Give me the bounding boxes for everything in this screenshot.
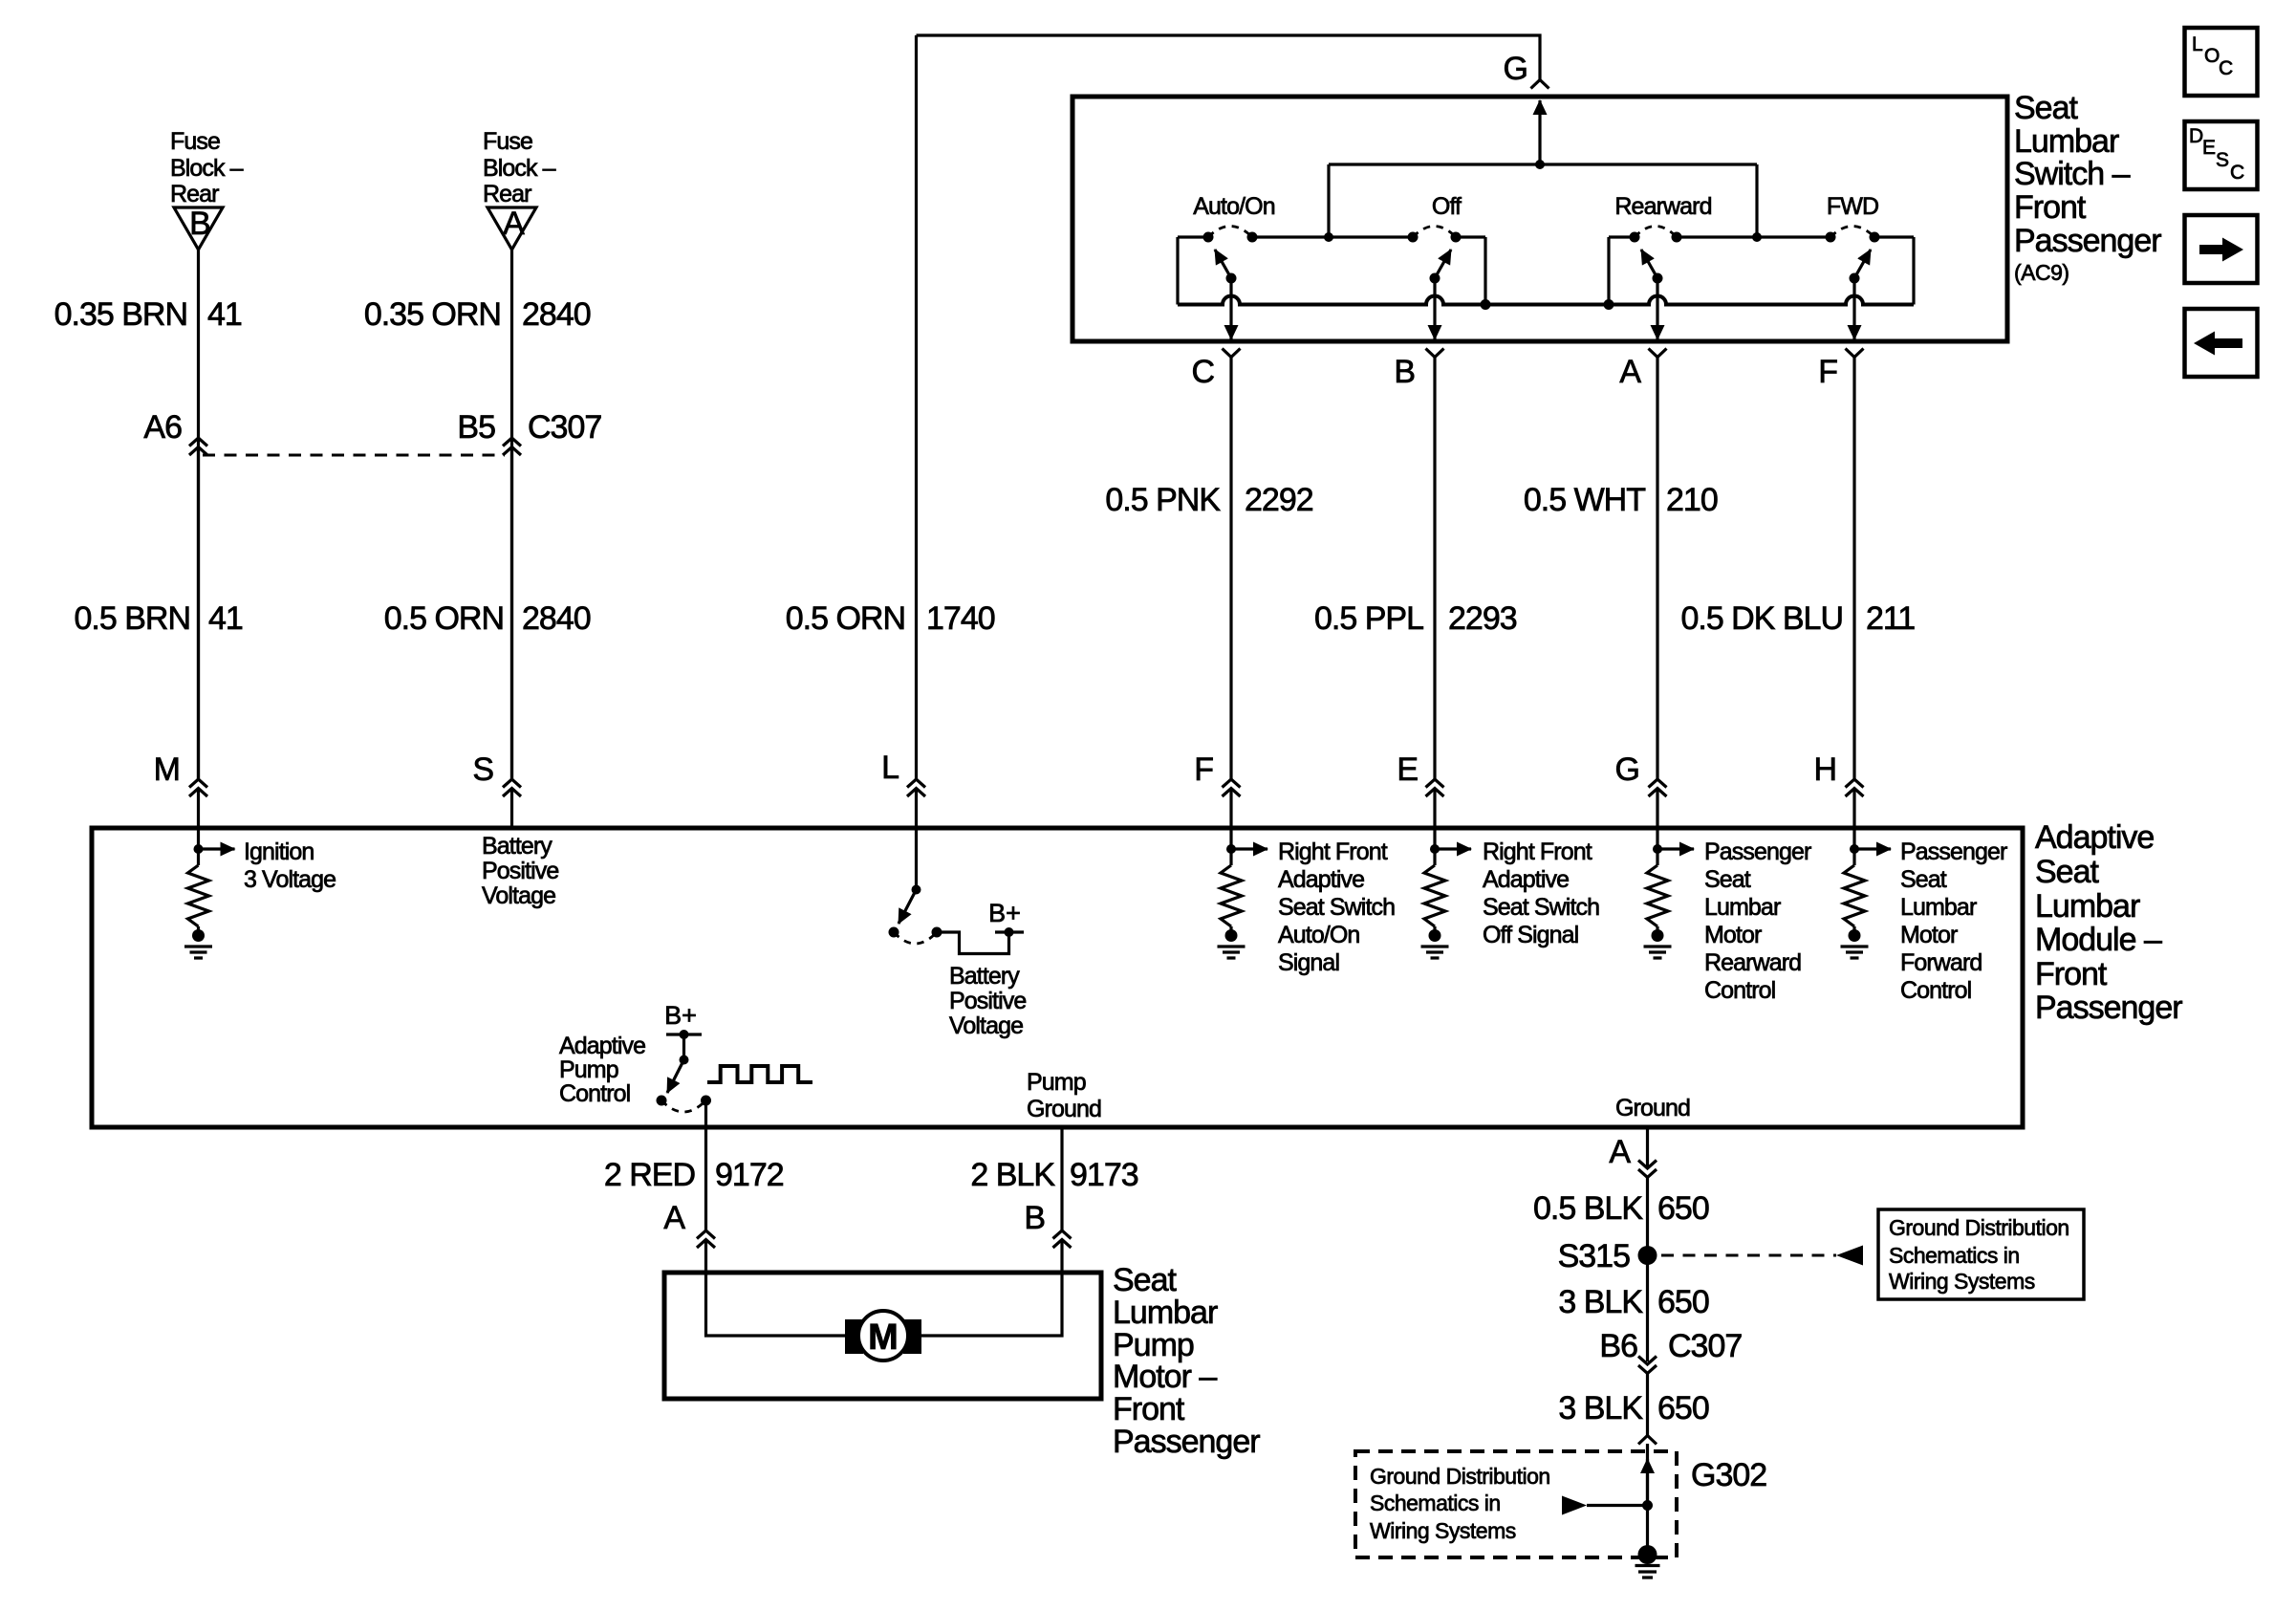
switch group2 dashed throw arcs: [1635, 227, 1874, 238]
G302 dashed box: [1355, 1451, 1677, 1557]
connector chevrons motor pin A: [697, 1230, 715, 1248]
wire B5 to module pin S: [510, 447, 513, 780]
svg-text:M: M: [868, 1317, 899, 1358]
svg-text:B+: B+: [664, 1001, 697, 1030]
wire L vertical: [915, 35, 918, 779]
label Pump Ground: [1027, 1069, 1101, 1122]
motor M1 body: [858, 1311, 908, 1361]
DESC reference box: [2185, 121, 2258, 189]
labels B5 C307: [457, 409, 601, 446]
wire C to module pin F: [1229, 358, 1232, 780]
ground distribution reference box: [1878, 1209, 2084, 1299]
module pin M ignition input: [194, 844, 204, 854]
label 0.5 WHT 210: [1524, 482, 1718, 518]
svg-text:Front: Front: [2014, 189, 2087, 226]
svg-text:Passenger: Passenger: [1113, 1424, 1260, 1460]
label 0.35 BRN 41: [54, 296, 242, 333]
connector chevron at pin G: [1531, 80, 1549, 89]
svg-text:A: A: [1609, 1134, 1631, 1170]
svg-text:L: L: [881, 750, 899, 786]
label 0.5 DK BLU 211: [1680, 600, 1915, 637]
svg-text:Auto/On: Auto/On: [1278, 922, 1359, 948]
connector chevron pin B: [1426, 349, 1444, 358]
svg-text:3 Voltage: 3 Voltage: [244, 866, 336, 893]
svg-text:Motor –: Motor –: [1113, 1359, 1217, 1395]
svg-text:FWD: FWD: [1827, 193, 1878, 220]
svg-text:Motor: Motor: [1900, 922, 1958, 948]
connector chevron G302: [1638, 1436, 1657, 1445]
svg-text:Ground Distribution: Ground Distribution: [1370, 1464, 1550, 1489]
svg-text:Battery: Battery: [949, 963, 1020, 990]
svg-text:C: C: [1191, 354, 1214, 390]
svg-text:41: 41: [207, 296, 242, 333]
switch FWD arm: [1850, 273, 1860, 284]
fuse block A label: [483, 128, 556, 207]
svg-text:Ground Distribution: Ground Distribution: [1889, 1215, 2069, 1240]
svg-text:G: G: [1615, 751, 1639, 788]
svg-text:A: A: [663, 1200, 685, 1236]
label 3 BLK 650: [1558, 1284, 1708, 1320]
svg-text:Wiring Systems: Wiring Systems: [1370, 1518, 1516, 1543]
svg-text:2 BLK: 2 BLK: [970, 1157, 1055, 1193]
label Ground Distribution Schematics in Wiring Systems G302: [1370, 1464, 1550, 1543]
svg-text:C307: C307: [1668, 1328, 1742, 1364]
svg-text:Rearward: Rearward: [1614, 193, 1711, 220]
connector chevrons ground pin A: [1638, 1161, 1657, 1178]
svg-text:C307: C307: [528, 409, 601, 446]
svg-text:D: D: [2189, 125, 2203, 147]
svg-text:Auto/On: Auto/On: [1193, 193, 1274, 220]
wire module ground pin A: [1646, 1127, 1649, 1168]
svg-text:Motor: Motor: [1704, 922, 1762, 948]
svg-text:B: B: [1394, 354, 1415, 390]
label 3 BLK 650 lower: [1558, 1390, 1708, 1426]
wire fuse B to connector A6: [197, 250, 200, 779]
svg-text:F: F: [1194, 751, 1213, 788]
switch Off arm: [1430, 273, 1440, 284]
svg-text:Lumbar: Lumbar: [2035, 888, 2140, 925]
switch Auto/On arm: [1226, 273, 1237, 284]
svg-text:Adaptive: Adaptive: [2035, 819, 2154, 856]
label 0.5 BLK 650: [1533, 1190, 1709, 1227]
svg-text:650: 650: [1657, 1190, 1709, 1227]
svg-text:Forward: Forward: [1900, 949, 1982, 976]
svg-text:2293: 2293: [1448, 600, 1517, 637]
svg-text:Ignition: Ignition: [244, 838, 314, 865]
svg-text:Front: Front: [1113, 1391, 1185, 1427]
fuse block A symbol: [487, 206, 536, 250]
label Passenger Seat Lumbar Motor Rearward Control: [1704, 838, 1811, 1004]
svg-text:B+: B+: [988, 899, 1021, 927]
wire B to module pin E: [1433, 358, 1436, 780]
svg-text:3 BLK: 3 BLK: [1558, 1284, 1643, 1320]
label Battery Positive Voltage pin S: [482, 833, 558, 909]
svg-text:O: O: [2204, 45, 2220, 67]
connector chevron pin F: [1846, 349, 1864, 358]
switch group1 dashed throw arcs: [1208, 227, 1456, 238]
label 0.5 ORN 2840: [384, 600, 591, 637]
wire A6 to module pin M: [197, 447, 200, 780]
svg-text:Pump: Pump: [1027, 1069, 1086, 1096]
svg-text:Voltage: Voltage: [949, 1012, 1023, 1039]
svg-text:Schematics in: Schematics in: [1889, 1243, 2020, 1268]
svg-text:Off: Off: [1432, 193, 1462, 220]
fuse block B label: [170, 128, 244, 207]
label Battery Positive Voltage internal: [949, 963, 1026, 1039]
svg-text:Positive: Positive: [949, 988, 1026, 1014]
svg-text:Fuse: Fuse: [170, 128, 220, 155]
svg-text:0.5 PPL: 0.5 PPL: [1314, 600, 1423, 637]
switch group1 contact dots: [1203, 232, 1214, 243]
label 0.5 ORN 1740: [786, 600, 995, 637]
svg-text:650: 650: [1657, 1284, 1709, 1320]
connector chevrons at pin L: [907, 779, 925, 796]
switch group2 contact dots: [1630, 232, 1640, 243]
svg-text:9172: 9172: [715, 1157, 784, 1193]
svg-text:0.5 ORN: 0.5 ORN: [786, 600, 905, 637]
svg-text:Front: Front: [2035, 956, 2108, 992]
svg-text:Rear: Rear: [483, 181, 531, 207]
svg-text:S315: S315: [1558, 1238, 1630, 1274]
connector C307 pin A6 chevrons: [189, 438, 207, 455]
label 0.5 PNK 2292: [1105, 482, 1312, 518]
wire top horizontal to switch pin G: [917, 35, 1541, 80]
switch output arrow A: [1656, 278, 1658, 339]
motor M1 brushes: [845, 1319, 863, 1354]
svg-text:0.35 ORN: 0.35 ORN: [364, 296, 501, 333]
node G bus junction: [1535, 160, 1545, 169]
svg-text:650: 650: [1657, 1390, 1709, 1426]
svg-text:A: A: [1619, 354, 1641, 390]
connector chevrons module pin H: [1846, 779, 1864, 796]
svg-text:Passenger: Passenger: [1704, 838, 1811, 865]
svg-text:E: E: [2202, 137, 2216, 159]
wires inside motor box: [706, 1273, 1063, 1336]
svg-text:Seat: Seat: [1704, 866, 1751, 893]
svg-text:2840: 2840: [522, 600, 591, 637]
svg-text:M: M: [154, 751, 180, 788]
connector chevron pin C: [1223, 349, 1241, 358]
svg-text:Seat: Seat: [2014, 90, 2078, 126]
svg-text:Control: Control: [1704, 977, 1775, 1004]
G302 internal reference arrow: [1562, 1496, 1587, 1515]
label Right Front Adaptive Seat Switch Auto/On Signal: [1278, 838, 1395, 976]
wire pump control to motor pin A: [704, 1100, 707, 1230]
switch output arrow F: [1852, 278, 1855, 339]
svg-text:C: C: [2230, 162, 2244, 184]
node lower bus junction right: [1604, 299, 1614, 310]
svg-text:Voltage: Voltage: [482, 882, 555, 909]
svg-text:Seat Switch: Seat Switch: [1483, 894, 1599, 921]
wire pump ground to motor pin B: [1060, 1127, 1063, 1230]
svg-text:Rearward: Rearward: [1704, 949, 1801, 976]
svg-text:Switch –: Switch –: [2014, 156, 2131, 192]
node bus drop junction: [1324, 232, 1333, 242]
svg-text:0.5 WHT: 0.5 WHT: [1524, 482, 1645, 518]
svg-text:Adaptive: Adaptive: [1483, 866, 1569, 893]
svg-text:Ground: Ground: [1027, 1096, 1101, 1122]
svg-text:B5: B5: [457, 409, 495, 446]
module pin G resistor: [1653, 844, 1662, 854]
svg-text:3 BLK: 3 BLK: [1558, 1390, 1643, 1426]
dashed reference line from S315: [1661, 1254, 1836, 1257]
connector chevrons module pin F: [1223, 779, 1241, 796]
module pin F resistor: [1226, 844, 1236, 854]
label Ground Distribution Schematics in Wiring Systems: [1889, 1215, 2069, 1294]
svg-text:Battery: Battery: [482, 833, 552, 860]
module pin E resistor: [1430, 844, 1440, 854]
svg-text:L: L: [2192, 33, 2203, 55]
wire bus left drop: [1327, 164, 1330, 237]
svg-text:G: G: [1504, 51, 1527, 87]
svg-text:Seat Switch: Seat Switch: [1278, 894, 1395, 921]
wire into module pin S: [510, 789, 513, 829]
svg-text:S: S: [2216, 149, 2229, 171]
svg-text:Control: Control: [559, 1080, 630, 1107]
svg-text:0.5 PNK: 0.5 PNK: [1105, 482, 1221, 518]
wire into ground symbol: [1646, 1444, 1649, 1549]
reference arrowhead: [1836, 1246, 1863, 1266]
wire F to module pin H: [1852, 358, 1855, 780]
connector chevrons module pin G: [1649, 779, 1667, 796]
fuse block B symbol: [174, 206, 223, 250]
svg-text:2292: 2292: [1245, 482, 1313, 518]
B+ terminal bar pump control: [666, 1033, 702, 1035]
svg-text:Right Front: Right Front: [1483, 838, 1592, 865]
svg-text:210: 210: [1666, 482, 1718, 518]
label Right Front Adaptive Seat Switch Off Signal: [1483, 838, 1599, 948]
label 2 BLK 9173: [970, 1157, 1137, 1193]
label Adaptive Pump Control: [559, 1033, 645, 1107]
label Ignition 3 Voltage: [244, 838, 336, 893]
svg-text:2840: 2840: [522, 296, 591, 333]
wire L switch to B+: [937, 932, 1009, 954]
switch group2 contact rail: [1609, 237, 1914, 305]
svg-text:Lumbar: Lumbar: [1704, 894, 1781, 921]
forward arrow box: [2185, 215, 2258, 283]
switch output arrow B: [1433, 278, 1436, 339]
svg-text:0.5 BLK: 0.5 BLK: [1533, 1190, 1643, 1227]
labels B6 C307: [1599, 1328, 1742, 1364]
connector chevrons at pin M: [189, 779, 207, 796]
svg-text:S: S: [472, 751, 493, 788]
svg-text:Seat: Seat: [2035, 854, 2099, 890]
svg-text:211: 211: [1866, 600, 1915, 637]
label 0.5 BRN 41: [75, 600, 243, 637]
svg-text:Seat: Seat: [1113, 1262, 1177, 1298]
svg-text:Signal: Signal: [1278, 949, 1339, 976]
svg-text:B6: B6: [1599, 1328, 1637, 1364]
svg-text:Passenger: Passenger: [1900, 838, 2007, 865]
label 0.5 PPL 2293: [1314, 600, 1517, 637]
svg-text:0.5 ORN: 0.5 ORN: [384, 600, 504, 637]
svg-text:E: E: [1397, 751, 1418, 788]
B+ terminal bar internal: [995, 930, 1024, 933]
svg-text:Block –: Block –: [483, 155, 556, 182]
connector chevron pin A: [1649, 349, 1667, 358]
connector chevrons module pin E: [1426, 779, 1444, 796]
module pin H resistor: [1850, 844, 1859, 854]
svg-text:Module –: Module –: [2035, 922, 2162, 958]
svg-text:Passenger: Passenger: [2014, 223, 2161, 259]
svg-text:C: C: [2219, 57, 2233, 79]
svg-text:G302: G302: [1691, 1457, 1766, 1493]
svg-text:0.35 BRN: 0.35 BRN: [54, 296, 187, 333]
svg-text:Adaptive: Adaptive: [559, 1033, 645, 1059]
LOC reference box: [2185, 28, 2258, 96]
svg-text:B: B: [1024, 1200, 1045, 1236]
svg-text:Schematics in: Schematics in: [1370, 1491, 1501, 1515]
adaptive seat lumbar module box: [92, 828, 2023, 1127]
svg-text:Seat: Seat: [1900, 866, 1947, 893]
svg-text:Adaptive: Adaptive: [1278, 866, 1364, 893]
svg-text:Fuse: Fuse: [483, 128, 532, 155]
dashed connector line C307: [203, 454, 505, 457]
connector C307 pin B5 chevrons: [503, 438, 521, 455]
svg-text:Passenger: Passenger: [2035, 990, 2182, 1026]
label Seat Lumbar Pump Motor - Front Passenger: [1113, 1262, 1260, 1460]
node bus drop junction right: [1752, 232, 1762, 242]
svg-text:1740: 1740: [926, 600, 995, 637]
switch output arrow C: [1229, 278, 1232, 339]
svg-text:A6: A6: [143, 409, 182, 446]
svg-text:A: A: [503, 206, 525, 242]
wire into module pin M: [197, 789, 200, 850]
adaptive pump control switch: [682, 1034, 685, 1060]
connector chevrons motor pin B: [1053, 1230, 1072, 1248]
svg-text:(AC9): (AC9): [2014, 260, 2069, 285]
connector chevrons B6 C307: [1638, 1357, 1657, 1374]
node lower bus junction left: [1481, 299, 1491, 310]
svg-text:Lumbar: Lumbar: [2014, 123, 2119, 160]
svg-text:F: F: [1818, 354, 1837, 390]
svg-text:2 RED: 2 RED: [604, 1157, 695, 1193]
label 0.35 ORN 2840: [364, 296, 591, 333]
svg-text:Positive: Positive: [482, 858, 558, 884]
wire into module pin L: [915, 789, 918, 890]
svg-text:Control: Control: [1900, 977, 1971, 1004]
label Passenger Seat Lumbar Motor Forward Control: [1900, 838, 2007, 1004]
labels terminals F E G H: [1194, 751, 1836, 788]
svg-text:Ground: Ground: [1615, 1095, 1690, 1121]
splice S315: [1638, 1246, 1657, 1265]
module internal switch pin L: [912, 885, 921, 895]
wire to ground G302: [1646, 1374, 1649, 1436]
seat lumbar pump motor box: [664, 1273, 1101, 1399]
ground G302 symbol: [1638, 1545, 1657, 1564]
seat lumbar switch box: [1072, 97, 2007, 341]
connector chevrons at pin S: [503, 779, 521, 796]
label 2 RED 9172: [604, 1157, 784, 1193]
svg-text:Lumbar: Lumbar: [1900, 894, 1977, 921]
wire G302 up arrow: [1646, 1459, 1649, 1506]
switch internal top bus: [1329, 163, 1757, 165]
wire fuse A to connector B5: [510, 250, 513, 779]
svg-text:B: B: [189, 206, 210, 242]
switch lower bus with hops: [1178, 296, 1914, 305]
back arrow box: [2185, 309, 2258, 377]
node G302 junction: [1642, 1500, 1653, 1511]
switch Rearward arm: [1653, 273, 1663, 284]
svg-text:H: H: [1813, 751, 1836, 788]
wire G arrow into switch: [1538, 100, 1541, 164]
switch group1 contact rail: [1178, 237, 1485, 305]
svg-text:Off Signal: Off Signal: [1483, 922, 1578, 948]
label Adaptive Seat Lumbar Module - Front Passenger: [2035, 819, 2182, 1026]
label Seat Lumbar Switch - Front Passenger (AC9): [2014, 90, 2161, 259]
wire A to module pin G: [1656, 358, 1658, 780]
svg-text:0.5 DK BLU: 0.5 DK BLU: [1680, 600, 1843, 637]
wire to splice S315: [1646, 1178, 1649, 1362]
svg-text:Pump: Pump: [559, 1056, 618, 1083]
svg-text:Lumbar: Lumbar: [1113, 1295, 1218, 1331]
wire bus right drop: [1755, 164, 1758, 237]
svg-text:Right Front: Right Front: [1278, 838, 1388, 865]
svg-text:0.5 BRN: 0.5 BRN: [75, 600, 191, 637]
svg-text:9173: 9173: [1070, 1157, 1138, 1193]
svg-text:Rear: Rear: [170, 181, 219, 207]
PWM waveform symbol: [707, 1066, 812, 1082]
svg-text:Wiring Systems: Wiring Systems: [1889, 1269, 2035, 1294]
svg-text:41: 41: [208, 600, 243, 637]
svg-text:Block –: Block –: [170, 155, 244, 182]
